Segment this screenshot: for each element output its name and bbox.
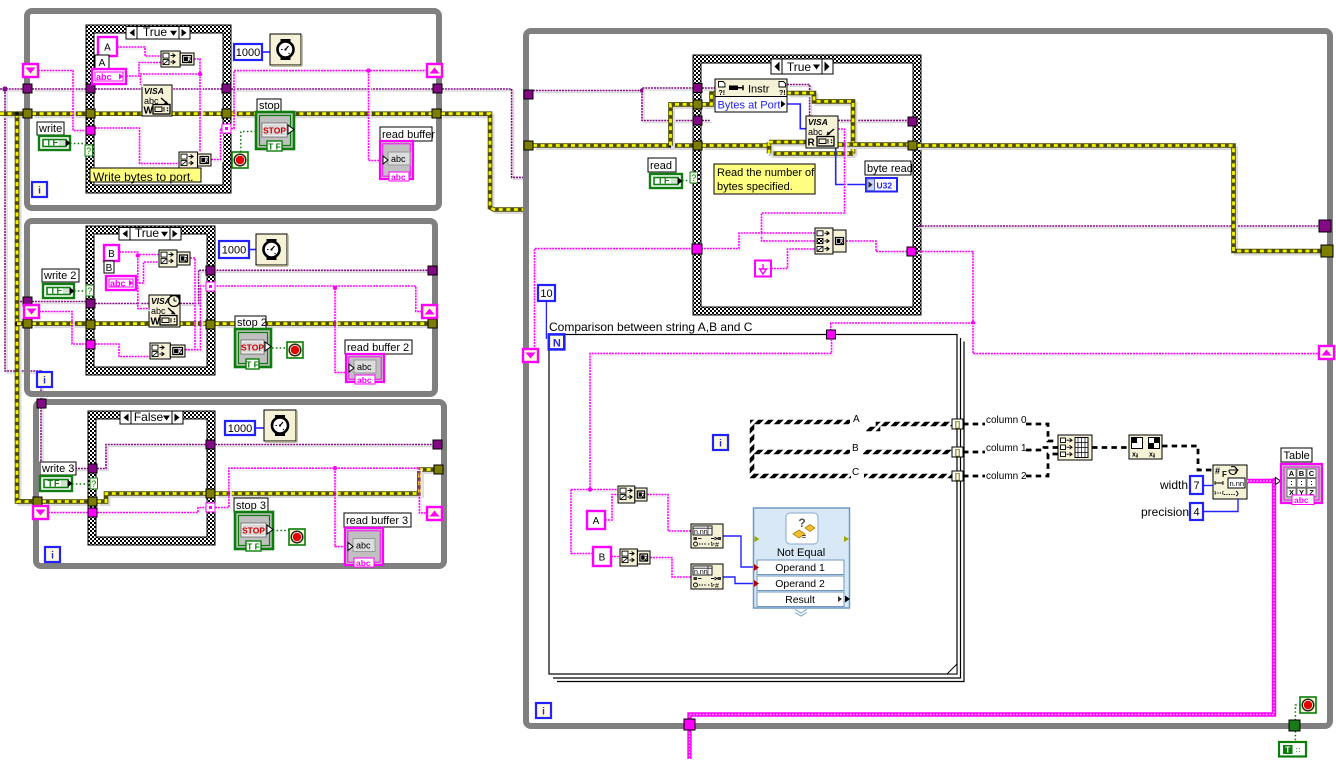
wire (error cluster): loop3 error to case3 — [45, 502, 91, 506]
svg-text:n.nn: n.nn — [1230, 479, 1245, 488]
case selector terminal ?: case3 ? — [90, 478, 98, 489]
wire (string): abc constant to format icon A — [128, 65, 163, 79]
tunnel: loop2 right VISA out — [428, 266, 437, 275]
svg-text:T: T — [1285, 745, 1291, 755]
wire (boolean): abort to loop condition — [1295, 705, 1300, 720]
tunnel: loop2 left VISA — [23, 297, 32, 306]
loop iteration terminal: loop1 i — [32, 182, 47, 197]
svg-text:1000: 1000 — [222, 245, 246, 257]
boolean terminal TF: read TF — [650, 174, 682, 188]
label: stop2 label — [235, 316, 266, 329]
wire (string): down-glyph to concat input 3 — [773, 251, 817, 271]
wire junction: purple rail junction — [2, 86, 7, 91]
svg-text:i: i — [719, 439, 722, 450]
wire (VISA resource): VISA rail down left edge to loop 3 — [7, 91, 43, 406]
case structure: case 3 "False" — [88, 411, 215, 545]
wire (numeric): precision wire — [1203, 499, 1238, 512]
wire (array, hatched): array wire A left — [750, 420, 850, 425]
tunnel: case1 left error — [86, 109, 95, 118]
wire (error cluster): loop3 error to right tunnel — [218, 472, 437, 496]
while loop: main read loop — [526, 31, 1330, 726]
case selector terminal ?: case2 ? — [86, 285, 94, 296]
tunnel: loop3 top VISA in — [37, 399, 46, 408]
boolean terminal TF: write2 TF — [43, 284, 74, 298]
wire (string): format A2 out down — [192, 260, 197, 352]
wire (VISA resource): loop3 VISA entry to case3 — [43, 406, 90, 471]
svg-text:Not Equal: Not Equal — [777, 547, 825, 559]
wire (string): abc2 to format icon — [138, 264, 161, 285]
svg-text:column 2: column 2 — [986, 471, 1027, 482]
label: stop label — [257, 99, 281, 112]
table indicator label — [1281, 448, 1312, 462]
wire (array, dashed): column0 wire b — [1026, 424, 1058, 441]
svg-text:Bytes at Port: Bytes at Port — [718, 100, 781, 112]
boolean terminal TF: write3 TF — [40, 476, 72, 491]
wire (array, hatched): array bracket vertical — [750, 424, 755, 474]
VISA Read icon: VISA Read — [806, 116, 838, 148]
label: read buffer2 label — [345, 340, 412, 354]
Wait (ms) clock icon: loop2 Wait ms — [256, 234, 287, 265]
wire junction: big error junction — [668, 143, 672, 147]
for loop frame (stacked) — [549, 335, 957, 675]
svg-text:False: False — [134, 410, 164, 424]
svg-text:read buffer 3: read buffer 3 — [346, 515, 408, 527]
wire (error cluster): branch to case tunnel 2 — [673, 107, 696, 148]
wire (VISA resource): VISA from loop1 to big loop edge — [444, 91, 525, 179]
svg-text:TF: TF — [46, 138, 59, 148]
wire (error cluster): big loop error tunnel to case tunnel 4 — [536, 146, 696, 150]
wire (error cluster): node error out wrap right — [790, 96, 856, 157]
wire (error cluster): error to big loop right tunnel — [920, 148, 1325, 254]
tunnel: big case t3 VISA — [693, 116, 702, 125]
tunnel: loop3 left error in — [33, 497, 42, 506]
string indicator (read buffer): read buffer 3 — [345, 528, 383, 565]
wire (VISA resource): loop1 VISA from left tunnel to case 1 — [34, 90, 88, 92]
svg-text:Z: Z — [205, 158, 209, 165]
wire (error cluster): case error tunnel4 to wrap — [705, 146, 772, 150]
svg-text:byte read: byte read — [867, 163, 913, 175]
svg-text:Table: Table — [1284, 450, 1310, 462]
string constant A: for A constant — [587, 511, 605, 529]
wire (string): A to concat f1 — [607, 497, 620, 523]
svg-text:C: C — [852, 467, 859, 478]
wire (numeric): s2n2 to Operand 2 — [723, 577, 754, 584]
svg-text:U32: U32 — [877, 181, 893, 191]
wire (string): case3 string to shift register — [217, 470, 429, 515]
tunnel: loop1 left error in — [23, 109, 32, 118]
svg-text:Z: Z — [188, 57, 192, 64]
wire (error cluster): error from loop1 to big loop edge — [444, 116, 526, 212]
svg-text:#: # — [1215, 466, 1220, 476]
svg-text:n.nn: n.nn — [694, 529, 708, 536]
svg-text:abc: abc — [391, 154, 406, 164]
wire junction: error rail junction 2 — [15, 321, 19, 325]
wire (string): VISA Read data down to concat — [764, 131, 847, 243]
tunnel: big loop right VISA out — [1319, 220, 1331, 232]
wire junction: case2 B junction — [136, 253, 140, 257]
wire (VISA resource): loop3 VISA to right tunnel — [217, 446, 435, 448]
wire (2D string array): table array down to bottom tunnel — [690, 481, 1275, 719]
wire (array, dashed): transpose to number-to-string — [1162, 446, 1213, 470]
svg-text:1000: 1000 — [236, 47, 260, 59]
shift register (up): loop1 right shift register — [427, 64, 442, 77]
wire junction: read buffer3 junction — [333, 466, 337, 470]
tunnel: case3 left VISA — [88, 464, 97, 473]
wire (string): case3 string through — [99, 510, 208, 515]
loop iteration terminal: loop3 i — [45, 547, 60, 562]
wire junction: loop1 string junction — [198, 72, 202, 76]
svg-text:#: # — [715, 583, 719, 590]
wire (string): A constant to format icon A — [119, 49, 163, 58]
wire (string): B to concat f2 — [613, 558, 622, 560]
svg-text:column 0: column 0 — [986, 415, 1027, 426]
string constant B: for B constant — [593, 547, 611, 566]
wire (string): case string tunnel to concat input 1 — [703, 235, 817, 251]
wire (VISA resource): VISA Read ref out to tunnel — [840, 121, 910, 123]
wire (string): loop1 string shift reg to case tunnel — [40, 73, 88, 133]
case selector label: case1 selector — [126, 25, 190, 39]
tunnel: big case right VISA — [908, 117, 917, 126]
for loop output tunnel t1 — [952, 447, 963, 457]
svg-text:Result: Result — [785, 594, 815, 606]
wire (error cluster): loop1 error from left tunnel to case 1 — [35, 114, 89, 118]
svg-text:write 2: write 2 — [43, 270, 76, 282]
case selector label: case2 selector — [119, 226, 181, 240]
abort/ok round button: abort 2 — [287, 342, 303, 358]
wire (string): loop1 string to read buffer / shift reg — [236, 72, 429, 74]
svg-text:read buffer: read buffer — [382, 129, 435, 141]
svg-text:TF: TF — [50, 286, 63, 296]
svg-text:Operand 2: Operand 2 — [775, 578, 825, 590]
wire (array, hatched): array wire C right — [864, 474, 952, 479]
svg-text:STOP: STOP — [241, 343, 264, 353]
for loop resize corner — [947, 664, 957, 674]
label: read buffer3 label — [344, 513, 411, 527]
tunnel: big loop bottom string tunnel — [684, 719, 695, 730]
wire (array, hatched): array wire B right — [863, 450, 952, 455]
svg-text:bytes specified.: bytes specified. — [717, 181, 793, 193]
case structure: case 2 "True" — [86, 226, 215, 375]
tunnel: case3 right error — [206, 489, 215, 498]
svg-text:stop 3: stop 3 — [236, 500, 266, 512]
wire (string): left shift register riser to case — [537, 251, 695, 352]
wire (array, dashed): column1 wire b — [1026, 448, 1058, 451]
svg-text:STOP: STOP — [242, 526, 265, 536]
wire (string): string into VISA Write 1 — [143, 76, 203, 87]
svg-text:TF: TF — [48, 479, 61, 489]
svg-text:F: F — [1222, 470, 1227, 479]
VISA Write icon: VISA Write 2 — [149, 295, 180, 327]
tunnel: big case t1 VISA — [693, 84, 702, 93]
wire (string): string to concat f1 — [573, 491, 620, 493]
svg-text:B: B — [106, 263, 113, 274]
wire (string): case1 string output riser — [233, 73, 236, 131]
svg-text:abc: abc — [356, 541, 371, 551]
svg-text:abc: abc — [96, 72, 112, 82]
svg-text:Z: Z — [645, 555, 649, 562]
svg-text:read: read — [650, 160, 672, 172]
wire (error cluster): error branch into loop2 — [20, 324, 26, 328]
case selector terminal ?: big case ? — [690, 172, 698, 183]
wire (VISA resource): VISA stub into loop2 — [22, 303, 25, 305]
svg-text:n.nn: n.nn — [694, 569, 708, 576]
svg-text:Z: Z — [642, 492, 646, 499]
boolean constant T — [1279, 742, 1306, 757]
property node Instr / Bytes at Port — [715, 79, 787, 112]
VISA Write icon: VISA Write 1 — [142, 85, 172, 116]
label B: case2 B lower — [104, 261, 114, 273]
wire (string): B string into VISA Write 2 — [140, 258, 152, 311]
svg-text:True: True — [143, 25, 168, 39]
wire (numeric): s2n1 to Operand 1 — [723, 536, 754, 567]
shift register (down): big loop left shift register — [523, 349, 538, 362]
tunnel: loop2 left error — [23, 319, 32, 328]
shift register (down): loop1 left shift register — [23, 64, 38, 77]
wire (VISA resource): loop1 VISA case to right tunnel — [233, 90, 435, 92]
shift register (down): loop2 left shift register — [24, 305, 39, 318]
fract/exp string-to-number icon: string to number 1 — [691, 524, 723, 548]
wire (string): case1 tunnel to format icon B — [97, 130, 181, 166]
table input arrow — [1276, 478, 1281, 485]
tunnel: big case t2 error — [693, 100, 702, 109]
string constant abc: case2 abc — [106, 276, 136, 290]
wire junction: table wire junction — [1271, 478, 1277, 484]
wire (VISA resource): case2 VISA out riser — [182, 272, 210, 305]
wire (VISA resource): property node ref out to VISA Read — [789, 87, 812, 119]
tunnel: loop2 right error out — [428, 319, 437, 328]
label A: case1 A lower — [95, 55, 109, 69]
loop iteration terminal: for loop i — [713, 435, 728, 450]
tunnel: case2 right error — [206, 320, 215, 329]
svg-text:VISA: VISA — [144, 86, 164, 96]
tunnel (output, small): case1 right string out — [222, 124, 231, 133]
wire (VISA resource): case1 VISA through (crosses VISA Write) — [95, 88, 222, 90]
svg-text:1000: 1000 — [228, 423, 252, 435]
wire (string): format icon B to output tunnel — [213, 131, 226, 162]
svg-text:column 1: column 1 — [986, 443, 1027, 454]
tunnel: big loop right error out — [1321, 245, 1333, 257]
wire (string): format B2 out to case2 tunnel — [187, 288, 210, 352]
wire (numeric): VISA Read return count to byte read — [836, 148, 866, 185]
svg-text:read buffer 2: read buffer 2 — [347, 342, 409, 354]
wire (string): loop2 shift reg to case2 — [41, 314, 88, 347]
svg-text:B: B — [108, 249, 115, 260]
string down-convert glyph: to-lower glyph — [755, 261, 771, 277]
wire (boolean): stop2 to abort glyph — [272, 347, 288, 349]
format/concatenate strings icon: case2 format B — [150, 343, 170, 359]
wire (error cluster): loop2 error to right tunnel — [218, 324, 431, 328]
wire (array, dashed): build array to transpose — [1092, 446, 1129, 449]
svg-text:Read the number of: Read the number of — [717, 167, 815, 179]
format/concatenate strings icon: for concat 1 — [618, 486, 635, 503]
stop button: stop 3 button — [235, 512, 273, 549]
wire junction: read buffer2 junction — [333, 286, 337, 290]
wire (string): for loop string down-left — [592, 341, 834, 490]
for loop output tunnel t2 — [952, 471, 963, 481]
tunnel: big case t4 error — [693, 141, 702, 150]
svg-text:VISA: VISA — [808, 117, 828, 127]
numeric constant 7: width constant — [1190, 476, 1203, 494]
shift register (down): loop3 left shift register — [33, 506, 48, 519]
wire (VISA resource): branch to case tunnel 3 — [644, 93, 695, 123]
svg-text::: : — [1300, 478, 1303, 487]
svg-text:TF: TF — [658, 176, 671, 186]
label: read label — [648, 158, 676, 172]
svg-text:abc: abc — [808, 127, 823, 137]
wire (error cluster): loop2 error left to case2 — [35, 324, 89, 328]
tunnel: big case t5 string — [692, 244, 702, 254]
svg-text:abc: abc — [357, 375, 372, 385]
wire (numeric): 10 to N terminal — [545, 301, 547, 339]
shift register (up): big loop right shift register — [1319, 346, 1334, 359]
format/concatenate strings icon: case1 format A — [161, 51, 180, 67]
wire (boolean): stop button to abort glyph loop1 — [241, 132, 256, 153]
wire (array, hatched): array wire A right — [866, 424, 952, 429]
svg-text:7: 7 — [1193, 480, 1199, 492]
wire (VISA resource): loop2 VISA left to case2 — [34, 303, 88, 305]
wire (string): branch to read buffer 3 — [337, 470, 349, 548]
wire (error cluster): case error to property node — [705, 96, 718, 107]
tunnel: loop condition tunnel — [1289, 720, 1300, 731]
svg-text:B: B — [852, 443, 859, 454]
Wait (ms) clock icon: loop3 Wait ms — [264, 410, 296, 441]
wire (string): concat out to case tunnel — [848, 243, 909, 254]
tunnel: case3 right VISA — [206, 440, 215, 449]
abort/ok round button: abort 3 — [289, 529, 305, 545]
svg-text:#: # — [715, 542, 719, 549]
svg-text:[]: [] — [955, 420, 961, 429]
wire (string): case2 tunnel to format icon — [97, 346, 152, 359]
svg-text:True: True — [135, 226, 160, 240]
string indicator (read buffer): read buffer — [380, 141, 413, 179]
svg-text:A: A — [1289, 469, 1295, 478]
wire (VISA resource): VISA stub tunnel3 — [704, 122, 712, 124]
wire (error cluster): error into loop3 — [20, 502, 36, 506]
svg-text:Z: Z — [840, 239, 844, 246]
wire (numeric): 1000 to Wait ms loop3 — [255, 427, 264, 429]
wire (error cluster): error rail down left edge to loops 2,3 — [20, 116, 36, 504]
wire (boolean): read TF to case selector — [682, 180, 690, 182]
wire junction: string to for-loop junction — [971, 321, 975, 325]
tunnel: case3 left string — [88, 508, 97, 517]
tunnel: big case right string — [907, 247, 916, 256]
svg-text:stop 2: stop 2 — [237, 317, 267, 329]
for loop output tunnel t0 — [952, 419, 963, 429]
wire (string): branch to read buffer indicator — [371, 73, 385, 163]
wire junction: big VISA junction — [640, 88, 644, 92]
svg-text:T F: T F — [246, 360, 259, 370]
svg-text:Write bytes to port.: Write bytes to port. — [93, 170, 193, 184]
svg-text:True: True — [787, 60, 812, 74]
wire (error cluster): error into VISA Read — [772, 143, 809, 147]
wire (numeric): Bytes at Port to VISA Read count — [787, 104, 806, 129]
svg-text::: : — [1290, 478, 1293, 487]
svg-text:abc: abc — [391, 172, 406, 182]
tunnel: case2 left error — [86, 320, 95, 329]
fract/exp string-to-number icon: string to number 2 — [691, 564, 723, 589]
tunnel: loop3 right VISA out — [433, 440, 442, 449]
svg-text:abc: abc — [356, 558, 371, 568]
free label (comment): read note — [714, 164, 815, 194]
svg-text:W: W — [151, 317, 161, 328]
label: write3 label — [40, 462, 76, 475]
svg-text:A: A — [853, 414, 860, 425]
wire (error cluster): case1 error through (crosses VISA Write) — [95, 111, 222, 116]
wire (error cluster): case3 error through — [100, 496, 209, 504]
svg-text:precision: precision — [1141, 505, 1189, 519]
svg-text:write: write — [38, 123, 62, 135]
svg-text:?: ? — [91, 479, 96, 489]
wire (string): branch into for loop — [833, 325, 975, 341]
svg-text:∷: ∷ — [1296, 748, 1301, 755]
shift register (up): loop3 right shift register — [427, 507, 442, 520]
wire (string): string out down to right shift register — [918, 254, 1321, 356]
wire (error cluster): error net from offscreen left to loop1 — [3, 114, 26, 118]
svg-text:W: W — [144, 106, 154, 117]
while loop: loop 3 (write C, false) — [36, 402, 444, 566]
tunnel (output, small): case3 right string — [206, 503, 215, 512]
numeric constant 4: precision constant — [1190, 503, 1203, 520]
wire (error cluster): error wrap bottom — [772, 154, 856, 158]
string indicator (read buffer): read buffer 2 — [346, 354, 384, 382]
wire (VISA resource): case2 VISA into VISA Write 2 — [95, 303, 180, 305]
tunnel: case2 left VISA — [86, 299, 95, 308]
wire (array, dashed): column2 wire a — [963, 475, 985, 478]
svg-text:i: i — [542, 707, 545, 718]
format/concatenate strings icon: for concat 2 — [620, 549, 637, 566]
svg-text:abc: abc — [151, 306, 166, 316]
wire (VISA resource): net from offscreen left to loop1 VISA tunnel — [2, 90, 25, 92]
tunnel: for loop string in tunnel — [827, 330, 836, 339]
string constant abc: case1 abc — [92, 69, 126, 84]
wire (array, hatched): array wire B left — [750, 450, 850, 455]
svg-text:N: N — [553, 337, 561, 349]
svg-text:STOP: STOP — [263, 126, 286, 136]
case structure: case "True" (read) — [693, 55, 921, 315]
wire (numeric): 1000 to Wait ms loop1 — [262, 51, 270, 53]
label: write label — [37, 122, 64, 135]
numeric constant 10: iterations constant — [538, 285, 555, 301]
label: write2 label — [42, 269, 79, 282]
svg-text:[]: [] — [955, 472, 961, 481]
svg-text:i: i — [38, 186, 41, 197]
format/concatenate strings icon: case2 format A — [159, 250, 177, 267]
label: stop3 label — [234, 498, 268, 512]
wire (string): string loop to B — [573, 492, 595, 556]
svg-text::: : — [1310, 478, 1313, 487]
svg-text:T F: T F — [247, 542, 260, 552]
tunnel: loop3 right error out — [434, 465, 443, 474]
abort/ok round button: abort 1 — [232, 152, 248, 168]
case selector label: case3 selector — [120, 410, 183, 424]
svg-text:Comparison between string A,B: Comparison between string A,B and C — [549, 320, 753, 334]
format/concatenate strings icon: case concat strings — [815, 228, 833, 254]
svg-text:Z: Z — [184, 256, 188, 263]
Wait (ms) clock icon: loop1 Wait ms — [270, 34, 301, 65]
svg-text:xᵢⱼ: xᵢⱼ — [1149, 452, 1155, 459]
wire (boolean): stop3 to abort glyph — [273, 530, 289, 532]
wire (VISA resource): case VISA to property node — [704, 89, 717, 91]
wire (boolean): write2 TF to selector — [74, 290, 86, 292]
tunnel: case2 right VISA — [206, 266, 215, 275]
free label (comment): write bytes note — [90, 168, 201, 182]
wire (string): case2 string to shift register — [216, 288, 424, 314]
tunnel: loop1 right error out — [432, 109, 441, 118]
label: byte read label — [865, 161, 911, 175]
string constant A: case1 A upper — [98, 37, 117, 56]
svg-text:10: 10 — [540, 288, 552, 300]
case selector label: big case selector — [771, 59, 833, 74]
